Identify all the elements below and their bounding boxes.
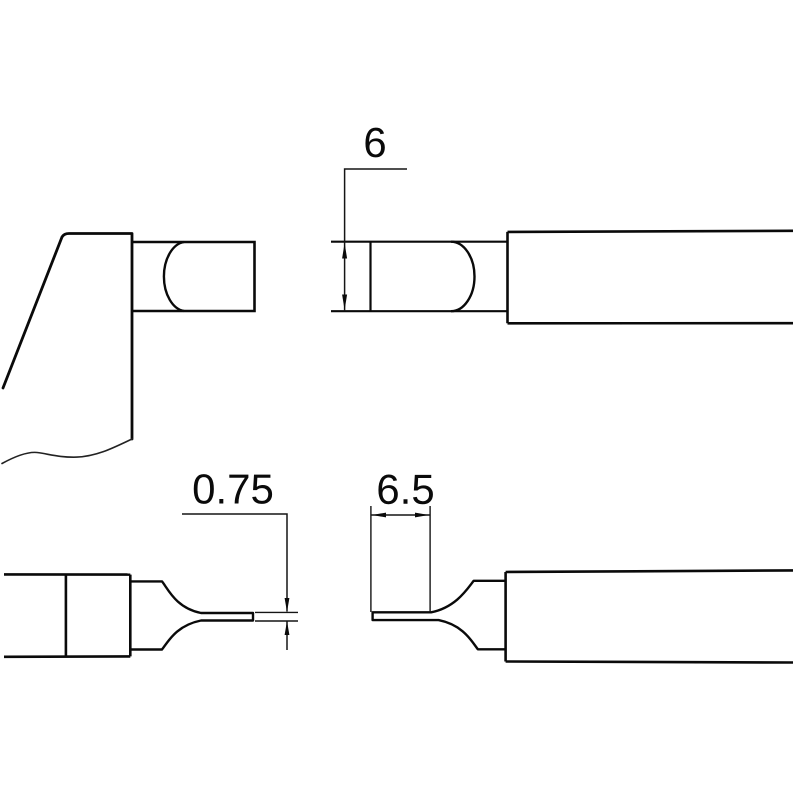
label 6.5 — [378, 474, 432, 504]
dimension 0.75: arrowhead down — [285, 598, 290, 612]
dimension 6: arrowhead up — [342, 243, 347, 259]
tip front face edge — [369, 242, 371, 312]
break wavy line — [2, 439, 132, 464]
dimension 6: leader line — [345, 169, 407, 242]
label 0.75 — [194, 474, 272, 504]
blade neck outline (bottom-left view) — [131, 581, 253, 649]
extension line right (6.5) — [429, 506, 431, 612]
chisel arc (right view, bulging right) — [451, 242, 474, 312]
extension line left (6.5) — [370, 506, 372, 612]
tip bottom outline line (top-right view) — [331, 310, 507, 312]
tip block (front view, left) — [132, 242, 255, 311]
collar right edge — [129, 575, 132, 657]
shaft (top-right view) — [508, 231, 794, 323]
dimension 0.75: lower tail line — [286, 622, 288, 651]
dimension 6.5: dimension line — [371, 514, 430, 516]
shaft (bottom-right view) — [506, 570, 793, 662]
collar divider edge — [65, 575, 68, 657]
dimension 6.5: arrowhead left — [372, 513, 386, 518]
dimension 6: dimension line — [344, 242, 346, 312]
handle body outline (top-left view) — [3, 234, 132, 440]
blade outline (bottom-right view) — [373, 581, 506, 650]
body top line (bottom-left view) — [4, 573, 130, 576]
label 6 — [365, 128, 384, 158]
dimension 6.5: arrowhead right — [415, 513, 429, 518]
dimension 6: arrowhead down — [342, 295, 347, 311]
tip top outline line (top-right view) — [331, 241, 507, 243]
extension line bottom (0.75) — [255, 620, 298, 622]
dimension 0.75: arrowhead up — [285, 621, 290, 635]
body bottom line (bottom-left view) — [4, 655, 130, 658]
extension line top (0.75) — [255, 611, 298, 613]
dimension 0.75: leader line — [182, 514, 287, 612]
chisel arc (left view, bulging left) — [164, 242, 184, 311]
